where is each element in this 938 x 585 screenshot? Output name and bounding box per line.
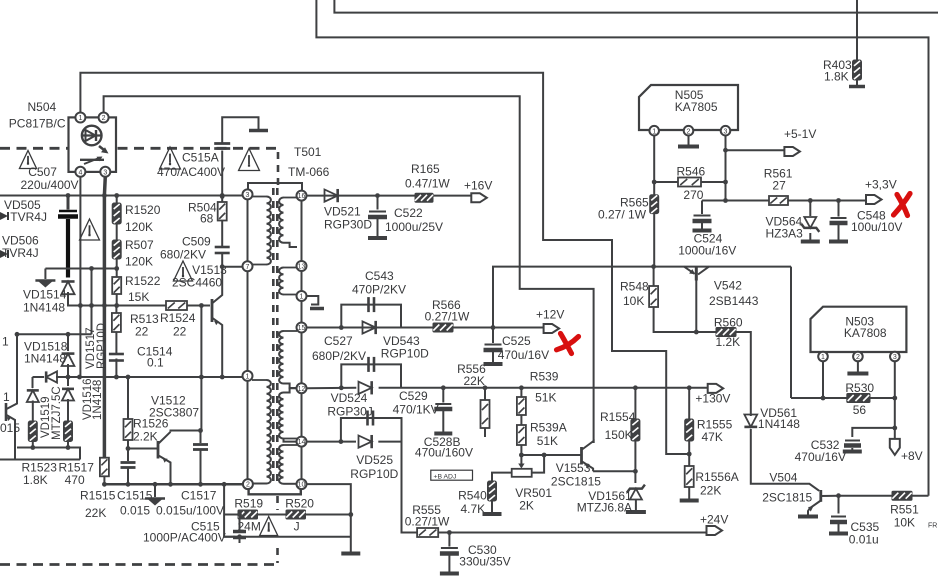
svg-text:330u/35V: 330u/35V — [459, 554, 510, 568]
svg-text:2SB1443: 2SB1443 — [709, 294, 759, 308]
potentiometer VR501 — [512, 455, 553, 513]
diode VD524 — [327, 381, 372, 419]
svg-text:R539: R539 — [530, 369, 559, 383]
svg-text:4: 4 — [78, 169, 82, 176]
wire ground branch — [45, 268, 116, 270]
svg-text:R507: R507 — [125, 238, 154, 252]
diode VD1516 — [62, 378, 104, 420]
transformer pin rail left — [247, 195, 249, 484]
svg-text:C522: C522 — [394, 206, 423, 220]
svg-text:12: 12 — [298, 386, 306, 393]
resistor R1522 — [112, 274, 160, 304]
svg-text:R548: R548 — [620, 280, 649, 294]
svg-text:27: 27 — [772, 179, 786, 193]
svg-text:C509: C509 — [182, 235, 211, 249]
svg-text:7: 7 — [246, 264, 250, 271]
wire transformer top bracket — [248, 183, 302, 191]
svg-text:R540: R540 — [458, 489, 487, 503]
resistor R520 — [285, 497, 314, 534]
wire top outer box — [316, 0, 928, 496]
warning triangle R520 — [260, 517, 278, 536]
wire pin3 N503 down — [892, 361, 897, 439]
flag +5-1V — [784, 127, 816, 156]
wire VD1516 stem — [67, 377, 69, 421]
capacitor C515A — [157, 117, 268, 199]
svg-text:J: J — [294, 520, 300, 534]
wire x17 column — [16, 334, 18, 400]
svg-text:R560: R560 — [714, 315, 743, 329]
resistor R1520 — [112, 203, 160, 234]
svg-text:R546: R546 — [677, 165, 706, 179]
svg-text:R1522: R1522 — [125, 274, 161, 288]
wire pin1 N505 down — [652, 136, 657, 195]
wire bottom rail left — [0, 459, 80, 461]
svg-text:150K: 150K — [605, 428, 633, 442]
svg-text:1.2K: 1.2K — [716, 335, 741, 349]
svg-text:KA7808: KA7808 — [844, 326, 887, 340]
svg-text:2SC1815: 2SC1815 — [762, 491, 812, 505]
resistor R530 — [845, 381, 874, 417]
resistor R565 — [598, 195, 659, 267]
resistor R556 — [457, 362, 489, 437]
flag +8V — [890, 439, 923, 463]
pin 1 N504 — [75, 113, 85, 123]
dashed core top — [277, 152, 280, 187]
svg-text:+16V: +16V — [464, 179, 492, 193]
resistor R1555 — [685, 388, 733, 466]
warning triangle V1513 — [174, 261, 193, 281]
ground pin2 N503 — [847, 361, 868, 373]
pin 3 T501 — [243, 189, 253, 199]
winding bottom shield — [249, 484, 301, 495]
resistor R1523 — [22, 421, 58, 487]
svg-text:2SC1815: 2SC1815 — [551, 475, 601, 489]
pin 2 N505 — [684, 126, 694, 136]
wire base node V1553 — [519, 453, 581, 458]
pin 16 T501 — [297, 191, 307, 201]
winding secondary 1 — [279, 198, 297, 248]
dashed isolation left — [0, 147, 68, 150]
svg-text:2: 2 — [687, 128, 691, 135]
svg-text:TVR4J: TVR4J — [2, 246, 39, 260]
wire R519-R520 — [237, 512, 286, 517]
wire bottom node 447 — [17, 445, 80, 459]
warning triangle T501 — [239, 149, 260, 171]
pin 2 N504 — [99, 113, 109, 123]
svg-text:R1515: R1515 — [80, 489, 116, 503]
svg-text:HZ3A3: HZ3A3 — [766, 227, 804, 241]
resistor R403 — [823, 58, 862, 84]
svg-text:R1524: R1524 — [160, 311, 196, 325]
svg-text:C525: C525 — [502, 334, 531, 348]
svg-text:TVR4J: TVR4J — [10, 210, 47, 224]
label FR — [928, 523, 937, 530]
resistor R1524 — [160, 301, 196, 339]
svg-text:16: 16 — [298, 193, 306, 200]
wire R1520-R507 — [116, 224, 118, 240]
svg-text:120K: 120K — [125, 255, 153, 269]
svg-text:1: 1 — [300, 294, 304, 301]
diode VD1517 inline — [46, 323, 108, 383]
label T501 — [288, 145, 330, 179]
wire VD1518 stem — [66, 332, 71, 351]
capacitor C535 — [829, 517, 880, 547]
svg-text:MTZJ7.5C: MTZJ7.5C — [51, 386, 63, 440]
svg-text:3: 3 — [246, 192, 250, 199]
svg-text:1000u/25V: 1000u/25V — [385, 220, 443, 234]
pin 1 T501 right — [297, 291, 307, 301]
winding secondary 2 — [279, 268, 297, 295]
svg-text:680/2KV: 680/2KV — [160, 248, 206, 262]
zener VD564 — [766, 201, 820, 242]
wire R566 to flag — [453, 325, 544, 330]
red cross 12V — [557, 334, 579, 354]
svg-text:10: 10 — [298, 482, 306, 489]
ground V504 emitter — [798, 515, 818, 519]
svg-text:+3,3V: +3,3V — [865, 178, 897, 192]
zener VD1561 — [577, 471, 646, 514]
svg-text:4.7K: 4.7K — [461, 502, 486, 516]
svg-text:22: 22 — [135, 325, 149, 339]
resistor R1517 — [59, 421, 95, 487]
svg-text:13: 13 — [298, 264, 306, 271]
svg-text:51K: 51K — [537, 434, 558, 448]
svg-text:2SC4460: 2SC4460 — [172, 276, 222, 290]
svg-text:TM-066: TM-066 — [288, 165, 330, 179]
dashed isolation mid — [118, 147, 279, 150]
wire base node — [199, 303, 204, 430]
svg-text:10K: 10K — [623, 294, 644, 308]
winding secondary 4 — [279, 388, 297, 441]
svg-text:0.1: 0.1 — [147, 356, 164, 370]
svg-text:56: 56 — [853, 403, 867, 417]
svg-text:C529: C529 — [399, 389, 428, 403]
capacitor C1514 — [109, 345, 173, 370]
wire bus to pin2 — [224, 483, 243, 485]
resistor R539A — [517, 415, 567, 455]
dashed core bottom — [276, 496, 279, 563]
flag +16V — [464, 179, 492, 203]
wire +5V branch — [726, 149, 785, 151]
wire opto pin2 to line B — [104, 96, 594, 443]
capacitor C509 — [160, 235, 230, 262]
svg-text:22K: 22K — [464, 374, 485, 388]
resistor R1515 — [80, 458, 116, 520]
diode VD561 — [744, 406, 800, 431]
wire node bus 334 — [15, 332, 92, 337]
svg-text:470: 470 — [65, 473, 85, 487]
wire opto pin1 to line A — [80, 73, 689, 454]
label C527 — [312, 334, 366, 363]
wire V1512 base node — [126, 440, 157, 451]
wire R520 out — [306, 514, 351, 516]
wire mid column x91 — [91, 269, 93, 335]
svg-text:1N4148: 1N4148 — [92, 380, 104, 420]
resistor R560 — [714, 315, 743, 349]
svg-text:+B ADJ: +B ADJ — [434, 473, 457, 480]
resistor R519 — [234, 497, 263, 534]
wire C509 bottom — [220, 252, 243, 269]
svg-text:0.27/1W: 0.27/1W — [405, 515, 450, 529]
flag +24V — [700, 513, 728, 536]
resistor R1554 — [600, 388, 640, 472]
svg-text:FR: FR — [928, 523, 937, 530]
IC N503 KA7808 — [811, 307, 907, 352]
ground R403 — [849, 80, 865, 87]
svg-text:1: 1 — [2, 335, 9, 349]
svg-text:0.015u/100V: 0.015u/100V — [156, 504, 224, 518]
svg-text:1.8K: 1.8K — [824, 70, 849, 84]
svg-text:KA7805: KA7805 — [675, 100, 718, 114]
svg-text:R1554: R1554 — [600, 410, 636, 424]
wire pin14 row — [306, 439, 417, 532]
resistor R555 — [405, 503, 450, 537]
svg-text:V542: V542 — [714, 279, 742, 293]
resistor R513 — [112, 312, 159, 339]
ground pin2 N505 — [678, 136, 699, 147]
svg-text:1N4148: 1N4148 — [758, 417, 800, 431]
flag +130V — [695, 384, 730, 405]
svg-text:R551: R551 — [890, 503, 919, 517]
svg-text:14: 14 — [298, 439, 306, 446]
wire bus-pin3 T501 — [222, 195, 243, 197]
wire top inner line — [334, 0, 938, 13]
svg-text:C1515: C1515 — [117, 489, 153, 503]
svg-text:1000P/AC400V: 1000P/AC400V — [143, 531, 226, 545]
svg-text:2: 2 — [246, 482, 250, 489]
svg-text:2.2K: 2.2K — [133, 430, 158, 444]
diode VD1518 — [24, 340, 74, 367]
svg-text:2K: 2K — [519, 499, 534, 513]
wire R513 stem — [115, 306, 117, 354]
resistor R548 — [620, 267, 716, 335]
wire R1522 — [114, 269, 119, 308]
svg-text:2SC3807: 2SC3807 — [149, 406, 199, 420]
pin 14 T501 — [297, 437, 307, 447]
svg-text:VD524: VD524 — [331, 391, 368, 405]
wire R530 out — [870, 396, 897, 401]
svg-text:47K: 47K — [702, 430, 723, 444]
resistor R1526 — [124, 377, 169, 444]
wire VD1519 column — [32, 377, 34, 388]
svg-text:015: 015 — [0, 421, 20, 435]
capacitor C515 — [143, 515, 246, 545]
node R507 bottom — [89, 266, 119, 271]
svg-text:RGP10D: RGP10D — [350, 467, 398, 481]
transistor V542 — [684, 267, 759, 332]
warning triangle C507 — [19, 151, 36, 169]
svg-text:470u/160V: 470u/160V — [415, 445, 473, 459]
svg-text:1: 1 — [78, 115, 82, 122]
svg-text:120K: 120K — [125, 220, 153, 234]
svg-text:470u/16V: 470u/16V — [498, 348, 549, 362]
snubber loop C529 — [341, 418, 402, 442]
capacitor C543 — [352, 269, 406, 312]
wire VD1519-R1523 — [32, 401, 34, 422]
pin 12 T501 — [297, 383, 307, 393]
wire sense bus left — [33, 376, 45, 378]
wire R507 bottom — [116, 259, 118, 269]
capacitor C524 — [678, 201, 736, 258]
resistor R165 — [405, 162, 450, 202]
resistor R539 — [517, 369, 559, 415]
svg-text:R1556A: R1556A — [695, 470, 738, 484]
wire sense bus — [56, 375, 243, 380]
resistor R507 — [112, 238, 154, 269]
svg-text:R539A: R539A — [530, 421, 567, 435]
diode VD1519 — [27, 386, 63, 440]
svg-text:PC817B/C: PC817B/C — [9, 117, 66, 131]
svg-text:MTZJ6.8A: MTZJ6.8A — [577, 501, 632, 515]
pin 3 N503 — [890, 352, 900, 362]
diode VD543 — [363, 321, 430, 361]
pin 4 N504 — [75, 167, 85, 177]
resistor R504 — [188, 201, 227, 226]
wire pin12 row — [306, 385, 707, 390]
winding primary 1 — [252, 197, 271, 265]
svg-text:VD525: VD525 — [356, 453, 393, 467]
wire R555 to 24V flag — [438, 530, 706, 535]
wire opto pin4 down — [79, 176, 81, 377]
capacitor C530 — [440, 533, 511, 574]
wire V1553 emitter — [593, 469, 638, 474]
svg-text:270: 270 — [683, 188, 703, 202]
diode VD1514 — [23, 281, 75, 314]
svg-text:+130V: +130V — [695, 391, 730, 405]
svg-text:1.8K: 1.8K — [23, 473, 48, 487]
ground bottom bus — [145, 484, 165, 505]
svg-text:0.27/ 1W: 0.27/ 1W — [598, 208, 647, 222]
wire 3.3V rail — [702, 198, 866, 203]
wire R519 branch — [224, 484, 235, 537]
wire R403 feed — [856, 0, 858, 60]
wire V504 collector — [836, 493, 892, 513]
svg-text:1: 1 — [652, 128, 656, 135]
svg-text:T501: T501 — [294, 145, 322, 159]
wire KA7808 in — [791, 361, 847, 400]
resistor R540 — [458, 481, 496, 516]
transformer core — [273, 188, 277, 481]
diode VD505 — [0, 198, 47, 224]
capacitor C548 — [829, 201, 902, 242]
wire pin16 row — [306, 193, 471, 198]
svg-text:R1520: R1520 — [125, 203, 161, 217]
box +B ADJ — [431, 470, 473, 480]
red cross 3.3V — [894, 194, 911, 216]
svg-text:3: 3 — [893, 354, 897, 361]
svg-text:RGP30D: RGP30D — [324, 218, 372, 232]
svg-text:R519: R519 — [234, 497, 263, 511]
diode VD521 — [324, 189, 372, 232]
svg-text:470P/2KV: 470P/2KV — [352, 283, 406, 297]
resistor R546 — [654, 165, 725, 203]
snubber loop C527 — [341, 364, 401, 387]
resistor R1556A — [680, 466, 739, 501]
capacitor C1517 — [156, 428, 224, 517]
wire R1520 top — [114, 193, 119, 203]
ground R540 — [483, 501, 502, 514]
svg-text:R520: R520 — [285, 497, 314, 511]
wire pin1 ground — [306, 296, 324, 309]
wire pin15 row — [306, 325, 434, 330]
capacitor C527 — [369, 357, 375, 372]
snubber loop C543 — [341, 305, 401, 328]
transistor V1513 — [172, 263, 227, 377]
wire bottom return — [224, 512, 353, 539]
optocoupler N504 — [9, 100, 116, 172]
svg-text:+8V: +8V — [901, 449, 923, 463]
svg-text:C1517: C1517 — [181, 489, 217, 503]
svg-text:680P/2KV: 680P/2KV — [312, 349, 366, 363]
wire main bus top — [0, 193, 243, 198]
svg-text:1000u/16V: 1000u/16V — [678, 244, 736, 258]
IC N505 KA7805 — [639, 85, 738, 130]
transistor V1511 partial — [0, 335, 20, 460]
wire main bottom bus — [103, 482, 244, 487]
wire C1514 bot — [115, 359, 117, 378]
transistor V504 — [762, 471, 838, 515]
flag +3.3V — [865, 178, 897, 205]
svg-text:68: 68 — [200, 212, 214, 226]
wire V1512 collector — [171, 431, 202, 432]
svg-text:+5-1V: +5-1V — [784, 127, 816, 141]
transformer pin rail right — [301, 196, 303, 484]
pin 1 N503 — [818, 352, 828, 362]
wire R1517 bot — [67, 442, 69, 448]
wire R560 out — [736, 332, 751, 416]
pin 2 N503 — [853, 352, 863, 362]
capacitor C1515 — [117, 449, 153, 518]
diode VD525 — [350, 435, 398, 481]
wire opto pin3 down — [103, 176, 107, 457]
svg-text:C515A: C515A — [182, 151, 219, 165]
wire +12V riser — [493, 264, 791, 327]
pin 1 T501 left — [243, 371, 253, 381]
wire R1523 bot — [32, 442, 34, 448]
warning triangle left — [80, 219, 100, 240]
svg-text:470/AC400V: 470/AC400V — [157, 165, 225, 179]
dashed isolation bottom — [0, 563, 278, 566]
svg-text:10K: 10K — [894, 516, 915, 530]
pin 3 N505 — [721, 126, 731, 136]
capacitor C525 — [484, 328, 550, 365]
wire VD1518 bottom — [67, 364, 69, 377]
svg-text:0.01u: 0.01u — [849, 533, 879, 547]
svg-text:V504: V504 — [769, 471, 797, 485]
transistor V1512 — [149, 394, 199, 485]
resistor R561 — [764, 167, 793, 206]
svg-text:220u/400V: 220u/400V — [21, 178, 79, 192]
svg-text:3: 3 — [103, 169, 107, 176]
svg-text:470/1KV: 470/1KV — [393, 403, 439, 417]
svg-text:VD521: VD521 — [324, 205, 361, 219]
svg-text:1: 1 — [821, 354, 825, 361]
svg-text:22K: 22K — [85, 506, 106, 520]
svg-text:RGP10D: RGP10D — [96, 323, 108, 369]
svg-text:0.47/1W: 0.47/1W — [405, 177, 450, 191]
svg-text:C527: C527 — [324, 334, 353, 348]
svg-text:R165: R165 — [411, 162, 440, 176]
ground primary — [35, 269, 55, 288]
flag +12V — [536, 308, 564, 334]
svg-text:2: 2 — [856, 354, 860, 361]
svg-text:1: 1 — [246, 374, 250, 381]
svg-text:15K: 15K — [128, 290, 149, 304]
svg-text:1: 1 — [3, 390, 10, 404]
svg-text:+24V: +24V — [700, 513, 728, 527]
capacitor C522 — [368, 196, 443, 238]
wire VR501 to R540 — [492, 473, 512, 481]
